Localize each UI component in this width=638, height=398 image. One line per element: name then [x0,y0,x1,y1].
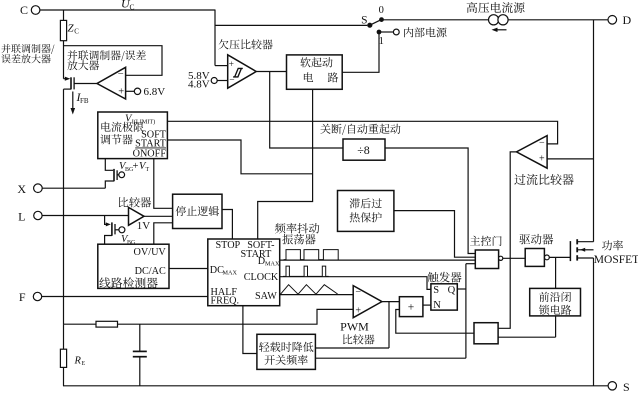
svg-text:STOP: STOP [216,240,241,251]
svg-text:DC/AC: DC/AC [135,266,166,277]
wire U2 output to soft-start box [256,71,286,73]
svg-text:D: D [623,13,632,27]
wire VI(LIMIT) rail to overcurrent comparator minus input [167,121,557,144]
svg-text:6.8V: 6.8V [144,86,166,98]
current source arrow [495,29,507,31]
svg-text:1: 1 [379,36,384,47]
wire U1 plus input to 6.8V reference [126,90,135,92]
node switch position 0 [379,17,384,22]
wire OV/UV from line detector up to stop logic [154,223,173,244]
block soft-start circuit [287,55,343,89]
svg-text:R: R [74,356,82,367]
wire Q junction vertical [465,264,467,359]
comparator U3 1V line sense [129,207,145,225]
svg-text:MOSFET: MOSFET [594,254,638,266]
wire into UV comparator plus input [215,65,228,67]
svg-text:Q: Q [448,285,456,296]
transistor Q4 power MOSFET [569,241,571,261]
resistor ZC [63,10,65,21]
label 关断/自动重起动 shutdown auto-restart [320,124,400,135]
wire PWM output to adder [382,301,400,303]
block stop logic 停止逻辑 [173,194,222,228]
gate U7 driver [525,249,544,267]
svg-text:X: X [17,182,26,196]
wire latch gate output to blanking net [498,336,555,338]
wire DMAX output to main gate [280,259,476,261]
terminal 6.8V reference [134,88,140,94]
wire divide-by-8 output to main gate [385,148,475,254]
svg-text:F: F [19,290,26,304]
svg-text:MAX: MAX [223,270,238,277]
wire X to Q2 source [42,187,105,189]
svg-text:C: C [20,3,28,17]
switch S lever to position 0 [370,20,382,26]
wire U3 output to stop logic [144,215,173,217]
svg-text:÷8: ÷8 [357,143,370,157]
transistor Q1 shunt MOSFET [64,78,69,80]
svg-text:S: S [433,285,439,296]
block light load frequency reduction 轻载时降低开关频率 [257,334,316,369]
transistor Q3 line sense with VBG reference [105,216,109,225]
block line detector 线路检测器 [98,244,169,288]
terminal D [608,15,617,24]
wire soft-start output to switch position 1 [342,32,379,72]
node switch position 1 [377,30,382,35]
waveform DMAX square wave [284,250,339,260]
wire ONOFF output down to stop logic [154,159,173,209]
wire bottom rail to terminal S [63,385,608,387]
svg-text:SAW: SAW [255,291,277,302]
wire blanking bottom to latch gate output net [555,316,557,337]
wire open-box top edge / feedback to error amp minus input [64,46,163,76]
wire main gate output to driver [503,257,525,259]
terminal L [34,211,42,219]
switch S common node [367,23,372,28]
wire thermal output to main gate [394,211,475,258]
current arrow I_FB [72,92,74,111]
svg-text:+: + [408,302,415,314]
op-amp U1 error amplifier [97,67,126,99]
wire soft-start bottom to oscillator SOFT-START [258,89,313,239]
wire y=324 feedback line to PWM plus input [64,309,354,324]
svg-text:4.8V: 4.8V [188,78,210,90]
svg-text:+: + [118,87,124,98]
capacitor C1 [139,324,141,351]
wire adder tap down to latch gate input [396,310,474,334]
wire driver output to MOSFET gate [549,256,570,258]
terminal S [608,382,616,390]
label driver 驱动器 [519,234,553,245]
block flip-flop [431,284,457,310]
svg-text:C: C [130,3,135,12]
gate U8 latch gate [474,323,498,344]
wire flip-flop Q output to junction [457,288,466,290]
wire F to oscillator HALF FREQ [42,296,208,298]
transistor Q2 with VBG+VT gate [105,159,113,171]
svg-text:OV/UV: OV/UV [134,247,167,258]
wire light-load output 1 [315,347,389,349]
svg-text:S: S [623,380,630,393]
label overcurrent comparator 过流比较器 [514,174,573,185]
wire junction U2 output down to divide-by-8 [270,72,343,149]
wire Q net to light-load block [315,357,466,359]
svg-text:CLOCK: CLOCK [244,272,279,283]
svg-text:E: E [82,361,86,367]
wire L to 1V comparator input [42,215,128,217]
wire vertical x=215 down to UV comparator plus input [214,10,216,66]
wire SOFT START output to soft-start net [167,140,312,174]
comparator U5 PWM [353,286,382,318]
svg-text:+: + [229,60,234,70]
svg-text:FB: FB [80,97,89,105]
label main gate 主控门 [470,236,502,246]
svg-text:+: + [355,305,361,316]
svg-text:C: C [74,28,79,36]
svg-text:N: N [433,300,441,311]
terminal C [31,6,40,15]
comparator U4 overcurrent [517,136,548,169]
wire Q net to main gate input [466,263,475,265]
svg-text:−: − [229,76,234,86]
block frequency jitter oscillator [208,239,280,306]
terminal F [33,292,41,300]
wire adder output to flip-flop N input [423,304,431,306]
terminal 5.8V/4.8V threshold input [211,78,217,84]
wire drain vertical to power MOSFET [593,20,595,242]
label 频率抖动振荡器 [275,223,319,234]
wire y=25.4 to switch common [215,24,367,26]
svg-text:L: L [18,209,25,223]
wire oscillator bottom to light-load block [243,306,257,354]
wire left rail from ZC down to transistor Q1 drain [63,46,65,79]
label power MOSFET 功率 [602,240,623,250]
svg-text:+: + [133,161,139,172]
svg-text:FREQ.: FREQ. [211,296,240,307]
waveform SAW sawtooth [281,285,338,295]
svg-text:I(LIMIT): I(LIMIT) [132,119,155,126]
svg-text:−: − [118,69,124,80]
terminal X [34,184,43,193]
label shunt regulator / error amp (outside) [1,44,54,54]
svg-text:−: − [355,287,361,298]
resistor R1 horizontal on feedback line [96,321,118,327]
block adder [399,297,423,317]
wire UC rail from C to x=215 [40,9,215,11]
comparator U2 undervoltage with hysteresis [228,55,257,88]
current source high-voltage [489,15,499,25]
svg-text:S: S [361,14,367,26]
wire U4 plus input from drain line [547,158,593,160]
label comparator 比较器 [119,197,151,207]
wire CLOCK output to flip-flop S input [280,277,431,290]
svg-text:START: START [241,249,273,260]
block hysteresis thermal protection 滞后过热保护 [338,191,394,232]
wire U4 output down to latch gate [498,152,516,328]
gate U6 main control gate [475,250,498,269]
block divide by 8 [343,139,385,160]
block leading edge blanking 前沿闭锁电路 [530,288,581,316]
wire PWM output branch down to light-load wire [388,302,390,348]
svg-text:T: T [146,167,150,173]
svg-text:0: 0 [379,5,384,16]
block current limit adjuster 电流极限调节器 [98,112,168,159]
label high-voltage current source 高压电流源 [467,2,525,13]
wire op-amp U1 output to Q1 gate [74,83,97,85]
wire position 1 to internal supply terminal [379,31,393,33]
waveform CLOCK pulses [283,266,329,276]
label flip-flop 触发器 [428,272,462,283]
wire left rail I_FB down to bottom network [63,89,65,324]
svg-text:MAX: MAX [265,261,280,268]
label internal supply 内部电源 [404,27,446,37]
label shunt regulator / error amp (inside) [67,50,145,61]
svg-text:−: − [539,138,545,149]
wire stop logic output to oscillator STOP [222,210,232,240]
wire DC/AC to oscillator DCMAX [169,268,208,270]
terminal internal supply [393,29,399,35]
svg-text:ONOFF: ONOFF [133,149,167,160]
label undervoltage comparator [218,39,272,49]
wire MOSFET source down to bottom rail [593,258,595,386]
wire driver output branch to leading edge blanking [555,257,557,288]
wire SAW output to PWM comparator minus input [280,294,354,296]
svg-text:1V: 1V [137,220,151,232]
wire top rail to drain terminal D [382,19,608,21]
resistor RE on left rail [63,324,65,349]
svg-text:PWM: PWM [340,320,369,334]
svg-text:+: + [539,154,545,165]
